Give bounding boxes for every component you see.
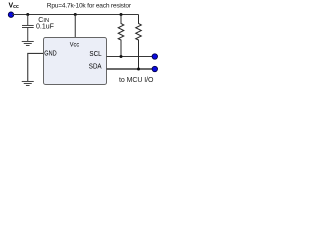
resistor R2 (SDA pull-up) bbox=[136, 15, 142, 70]
ground (IC GND) bbox=[22, 81, 34, 85]
junction at CIN top bbox=[26, 13, 29, 16]
svg-text:Vcc: Vcc bbox=[9, 3, 19, 11]
svg-text:Rpu=4.7k-10k for each resistor: Rpu=4.7k-10k for each resistor bbox=[47, 3, 132, 10]
IC U1 body bbox=[44, 38, 107, 85]
svg-text:SDA: SDA bbox=[89, 63, 102, 70]
junction at IC Vcc stub bbox=[74, 13, 77, 16]
wire IC Vcc stub bbox=[74, 15, 76, 38]
wire CIN top lead bbox=[27, 15, 29, 26]
wire SCL net bbox=[107, 56, 153, 58]
junction R1 top bbox=[120, 13, 123, 16]
junction R1 bottom on SCL bbox=[120, 55, 123, 58]
svg-text:Vcc: Vcc bbox=[70, 41, 80, 48]
resistor R1 (SCL pull-up) bbox=[118, 15, 124, 57]
junction R2 bottom on SDA bbox=[137, 68, 140, 71]
node Vcc (blue terminal) bbox=[8, 12, 13, 17]
wire SDA net bbox=[107, 68, 153, 70]
node SDA terminal (blue) bbox=[152, 66, 157, 71]
wire GND pin to ground bbox=[28, 53, 43, 81]
wire CIN bottom lead bbox=[27, 28, 29, 41]
wire Vcc rail bbox=[12, 14, 139, 16]
svg-text:to MCU I/O: to MCU I/O bbox=[119, 77, 154, 84]
node SCL terminal (blue) bbox=[152, 54, 157, 59]
ground (capacitor) bbox=[22, 41, 34, 45]
svg-text:0.1uF: 0.1uF bbox=[36, 24, 54, 31]
svg-text:GND: GND bbox=[44, 51, 56, 58]
svg-text:SCL: SCL bbox=[89, 51, 101, 58]
capacitor C1 CIN plates bbox=[22, 25, 34, 27]
